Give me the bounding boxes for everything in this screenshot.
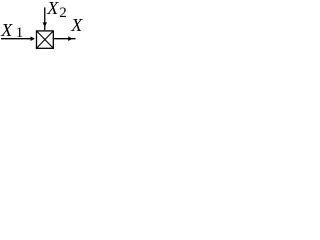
- arrowhead output: [68, 36, 72, 41]
- wire output: [54, 38, 76, 40]
- svg-text:X: X: [46, 0, 59, 18]
- svg-text:X: X: [70, 15, 83, 35]
- label X1 (input 1): [0, 20, 23, 41]
- arrowhead input 2: [42, 22, 47, 27]
- multiplier cross diagonal 1: [37, 31, 54, 48]
- multiplier box U1: [37, 31, 54, 48]
- svg-text:X: X: [0, 20, 13, 40]
- multiplier cross diagonal 2: [37, 31, 54, 48]
- svg-text:2: 2: [59, 5, 67, 21]
- label X2 (input 2): [46, 0, 67, 21]
- wire input 1: [1, 38, 32, 40]
- wire input 2 (vertical): [44, 7, 46, 30]
- arrowhead input 1: [31, 36, 35, 41]
- background: [0, 0, 95, 59]
